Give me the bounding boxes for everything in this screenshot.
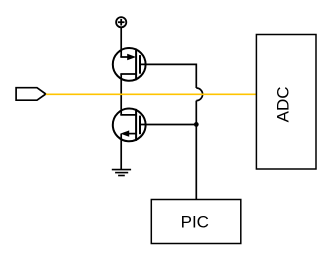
power supply + symbol	[116, 17, 126, 27]
Q2 gate bar	[139, 116, 141, 135]
crossover hop	[196, 88, 202, 101]
Q1 channel bar	[135, 49, 137, 81]
wire node to PIC	[195, 101, 197, 200]
signal wire (orange) input to ADC	[46, 93, 257, 95]
Q1 arrowhead	[127, 54, 136, 60]
wire Q2 gate to node	[140, 124, 196, 126]
wire Q1 gate to node column	[140, 64, 196, 88]
junction dot	[194, 122, 199, 127]
Q2 arrowhead	[120, 130, 129, 136]
input port	[16, 88, 46, 101]
Q1 gate bar	[139, 55, 141, 74]
Q2 drain lead	[121, 113, 136, 116]
wire Q1 source to Q2 drain	[120, 74, 122, 115]
PIC box	[151, 200, 241, 244]
Q1 drain lead	[121, 56, 130, 57]
svg-text:PIC: PIC	[181, 213, 209, 232]
transistor Q1 (top P-channel MOSFET)	[113, 48, 146, 81]
wire supply to Q1 drain	[120, 27, 122, 57]
transistor Q2 (bottom N-channel MOSFET)	[113, 109, 146, 142]
Q2 channel bar	[135, 109, 137, 141]
ADC box	[256, 35, 316, 170]
ground symbol	[112, 170, 131, 176]
Q1 source lead	[121, 74, 136, 75]
wire Q2 source to ground	[120, 134, 122, 170]
svg-text:ADC: ADC	[273, 86, 292, 122]
Q2 source lead	[129, 133, 137, 135]
